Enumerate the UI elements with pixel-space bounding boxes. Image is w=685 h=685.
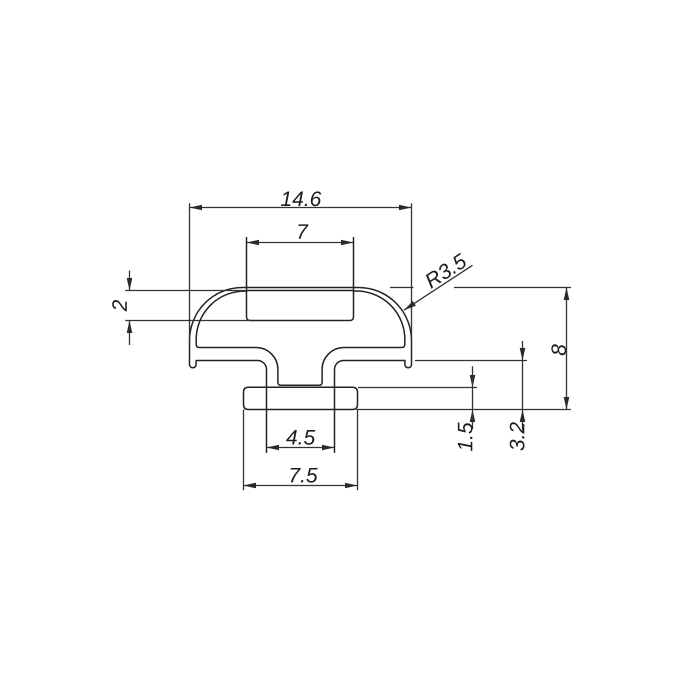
top slot walls and bottom	[247, 238, 354, 321]
bulb underside and center stem outline	[196, 342, 405, 386]
dim 2 slot depth, left side	[125, 290, 245, 292]
lower part top face right and slot wall	[335, 361, 405, 453]
dim 4.5 slot outer width	[267, 447, 335, 449]
dim 7 slot width	[247, 242, 354, 244]
leader R3.5 shoulder radius	[404, 265, 473, 310]
dim 8 overall height, right side	[390, 287, 414, 289]
bulb inner arc left	[196, 291, 246, 341]
dim 7.5 base width	[243, 410, 245, 491]
dim 14.6 overall width	[190, 207, 412, 209]
top slot top edge	[247, 290, 354, 292]
bulb outer outline with side lips	[190, 288, 412, 368]
dim 1.5 base plate thickness	[358, 387, 477, 389]
dim 3.2 lower height, right side	[415, 360, 527, 362]
base plate rounded rectangle	[244, 387, 358, 409]
bulb inner arc right	[354, 291, 405, 341]
lower part top face left and slot wall	[196, 361, 266, 453]
